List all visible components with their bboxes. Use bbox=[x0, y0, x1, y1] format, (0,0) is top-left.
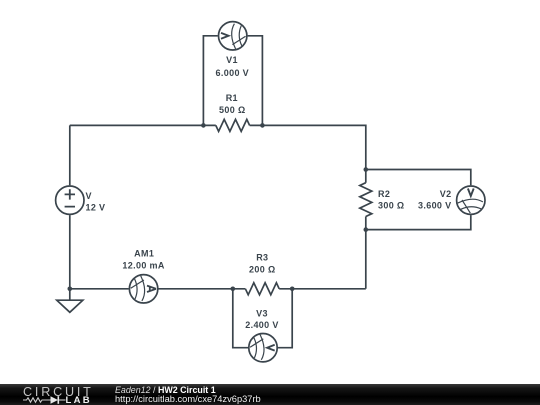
svg-text:R2: R2 bbox=[378, 189, 390, 199]
svg-text:2.400 V: 2.400 V bbox=[245, 320, 278, 330]
svg-text:AM1: AM1 bbox=[134, 249, 154, 259]
svg-text:12.00 mA: 12.00 mA bbox=[122, 260, 164, 270]
svg-text:6.000 V: 6.000 V bbox=[216, 68, 249, 78]
svg-text:200 Ω: 200 Ω bbox=[249, 265, 275, 275]
svg-text:V3: V3 bbox=[256, 309, 268, 319]
svg-text:300 Ω: 300 Ω bbox=[378, 201, 404, 211]
svg-text:500 Ω: 500 Ω bbox=[219, 105, 245, 115]
svg-text:12 V: 12 V bbox=[86, 202, 106, 212]
svg-text:V: V bbox=[86, 191, 92, 201]
svg-text:V2: V2 bbox=[440, 189, 452, 199]
svg-text:3.600 V: 3.600 V bbox=[418, 201, 451, 211]
svg-text:V1: V1 bbox=[226, 55, 238, 65]
svg-text:R3: R3 bbox=[256, 252, 268, 262]
svg-text:R1: R1 bbox=[226, 93, 238, 103]
